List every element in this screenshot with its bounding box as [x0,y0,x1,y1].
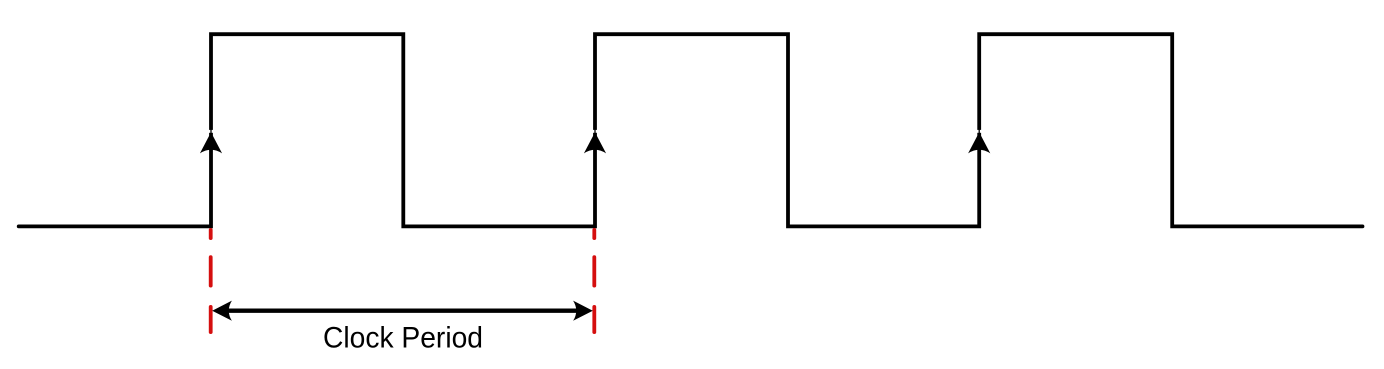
wire: clock waveform [19,34,1363,226]
pinch notch 3 [977,129,982,134]
dimension arrowhead left [212,301,232,321]
rising-edge arrowhead 1 [200,132,222,153]
svg-text:Clock Period: Clock Period [323,322,483,355]
dimension arrow shaft [228,309,577,313]
dashed marker line 2 (right clock edge) [592,228,596,334]
pinch notch 1 [208,129,213,134]
rising-edge arrowhead 2 [584,132,606,153]
rising-edge arrowhead 3 [968,132,990,153]
pinch notch 2 [592,129,597,134]
dimension arrowhead right [573,301,593,321]
dashed marker line 1 (left clock edge) [209,228,213,334]
